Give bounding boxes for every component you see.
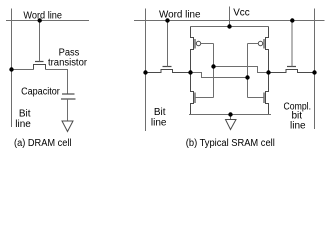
ground symbol (b) (226, 120, 237, 130)
svg-text:line: line (151, 117, 167, 128)
pmos T3 gate bar (194, 39, 196, 49)
access transistor T5 gate bar (163, 66, 172, 68)
access transistor T6 channel and wires (269, 70, 315, 73)
nmos T1 gate bar (194, 93, 196, 104)
junction dot: right gate line / cross wire (245, 75, 249, 79)
complement bit line wire (314, 9, 316, 130)
cross-coupling wire: left gate to node C2 (214, 67, 269, 73)
svg-text:line: line (15, 119, 31, 130)
wire: capacitor to ground (67, 99, 69, 121)
access transistor T5 channel and wires (146, 70, 191, 73)
svg-text:line: line (290, 121, 306, 132)
junction dot: bit line (a) / Q1 source (9, 67, 13, 71)
junction dot: compl. bit line / T6 (312, 70, 316, 74)
capacitor C1 top plate (62, 93, 75, 95)
svg-text:Vcc: Vcc (233, 8, 250, 19)
ground symbol (a) (62, 121, 73, 132)
svg-text:transistor: transistor (48, 57, 88, 68)
wire: T4 bubble to right gate line (248, 43, 259, 45)
junction dot: word line / T5 gate (165, 18, 169, 22)
junction dot: node C1 (188, 70, 192, 74)
pass transistor Q1 gate bar (35, 61, 44, 63)
Vcc lead wire (229, 7, 231, 27)
right gate line wire (247, 44, 249, 98)
pass transistor Q1 channel (34, 65, 46, 70)
junction dot: node C2 (266, 70, 270, 74)
pmos T4 gate bubble (258, 41, 262, 45)
left inverter channel (T3 pmos over T1 nmos) (191, 27, 194, 115)
wire: Q1 drain to capacitor (46, 70, 68, 95)
wire: gate of Q1 to word line (39, 21, 41, 62)
right inverter channel (T4 pmos over T2 nmos) (266, 27, 269, 115)
svg-text:Word line: Word line (159, 10, 201, 21)
junction dot: word line / T6 gate (290, 18, 294, 22)
pmos T3 gate bubble (196, 41, 200, 45)
ground rail wire (189, 114, 271, 116)
word line (a) wire (6, 20, 89, 22)
pmos T4 gate bar (263, 39, 265, 49)
capacitor C1 bottom plate (61, 98, 76, 100)
access transistor T6 gate bar (287, 66, 296, 68)
svg-text:Word line: Word line (23, 11, 62, 22)
wire: ground rail to ground symbol (230, 115, 232, 120)
word line (b) wire (134, 20, 325, 22)
nmos T2 gate bar (263, 93, 265, 104)
cross-coupling wire: node C1 to right gate (191, 73, 248, 78)
wire: T1 gate lead (195, 97, 214, 99)
bit line (a) wire (11, 9, 13, 128)
svg-text:Capacitor: Capacitor (21, 86, 60, 97)
junction dot: ground rail (228, 112, 232, 116)
junction dot: Vcc lead / Vcc rail (227, 24, 231, 28)
junction dot: left gate line / cross wire (211, 64, 215, 68)
svg-text:Bit: Bit (19, 108, 31, 119)
junction dot: word line / Q1 gate (38, 18, 42, 22)
left gate line wire (213, 44, 215, 98)
wire: T2 gate lead (248, 97, 265, 99)
svg-text:(b) Typical SRAM cell: (b) Typical SRAM cell (186, 138, 275, 149)
junction dot: bit line (b) / T5 (143, 70, 147, 74)
wire: T3 bubble to left gate line (201, 43, 214, 45)
Vcc rail wire (191, 26, 269, 28)
wire: T5 gate to word line (167, 21, 169, 67)
wire: T6 gate to word line (291, 21, 293, 67)
wire: bit line to pass transistor source (12, 69, 34, 71)
svg-text:(a) DRAM cell: (a) DRAM cell (14, 138, 72, 149)
bit line (b) wire (145, 9, 147, 132)
